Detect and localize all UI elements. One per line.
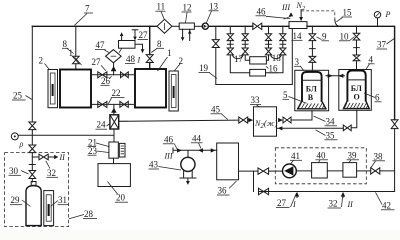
- label 41: [290, 151, 302, 165]
- label 15: [336, 8, 352, 22]
- label 27 top-right: [138, 30, 149, 40]
- blower U13 (circle with arrow): [202, 23, 208, 29]
- dryer U12 (rectangle): [179, 23, 194, 29]
- label 28: [69, 209, 97, 219]
- flow arrow right on III line: [177, 148, 182, 152]
- label 48: [125, 54, 136, 64]
- label 11: [156, 2, 166, 19]
- svg-text:18: 18: [272, 53, 282, 63]
- wire: top header line left segment: [32, 25, 157, 27]
- getter U16 (lower rectangle): [250, 69, 266, 76]
- wire: manifold column 1: [215, 26, 217, 39]
- flow arrow into tank 33: [248, 118, 254, 122]
- label 34: [314, 116, 338, 126]
- svg-text:40: 40: [317, 150, 327, 160]
- label 21: [88, 137, 109, 147]
- label 12: [182, 3, 192, 23]
- N2 inlet arrow into panel 14: [299, 10, 303, 22]
- svg-text:III: III: [164, 152, 173, 161]
- wire: lower getter to col5: [266, 55, 284, 73]
- label 5: [283, 90, 307, 104]
- wire: upper getter to col4: [266, 55, 268, 60]
- label 1 right: [158, 48, 172, 71]
- label 43: [149, 160, 182, 171]
- wire: valve 24 outlet line 45: [119, 120, 239, 121]
- label 37: [377, 39, 395, 50]
- svg-text:44: 44: [192, 133, 202, 143]
- wire: indicator to vessel 20: [113, 158, 115, 163]
- label 46 top: [256, 6, 291, 18]
- valve right of tank 33: [283, 117, 291, 123]
- valve V8 right: [146, 55, 153, 69]
- wire: lower transfer line between tanks: [91, 103, 135, 105]
- svg-text:10: 10: [340, 31, 350, 41]
- connector diamond to analyser 48: [119, 48, 122, 53]
- level glass U23: [119, 143, 125, 157]
- wire: drop to left valve 8: [75, 26, 77, 56]
- svg-text:47: 47: [96, 40, 106, 50]
- valve V32 on branch: [39, 154, 48, 160]
- cryostat vessel BL-O: [344, 71, 370, 109]
- svg-text:1: 1: [167, 48, 172, 58]
- svg-text:17: 17: [234, 54, 244, 64]
- wire: valve 38 to stand-pipe: [380, 170, 395, 172]
- wire: 41 to 40: [296, 170, 311, 172]
- level gauge 2 right: [169, 71, 178, 111]
- wire: port III line to box 36: [173, 148, 217, 153]
- svg-text:41: 41: [291, 151, 300, 161]
- wire: drop to right valve 8 (bold): [149, 26, 151, 54]
- level glass 31: [44, 191, 54, 226]
- valves column 5: [280, 34, 286, 55]
- wire: into dashed unit: [269, 170, 283, 172]
- tank 1 left (bold box): [60, 70, 91, 108]
- compressor U41 (circle with rotor): [283, 164, 297, 178]
- pressure gauge P: [374, 10, 390, 26]
- label 47: [95, 40, 110, 53]
- dashed enclosure 28: [5, 153, 69, 227]
- svg-text:22: 22: [112, 88, 121, 98]
- flow arrow left (44): [198, 148, 203, 152]
- vessel U20 (rectangle): [98, 164, 130, 187]
- label 33: [250, 95, 261, 107]
- label 27 bottom with port I: [276, 193, 297, 209]
- svg-text:30: 30: [9, 166, 19, 176]
- valve above vessel O: [353, 55, 360, 71]
- svg-text:27: 27: [139, 30, 149, 40]
- wire: 39 to valve 38: [357, 170, 371, 172]
- svg-text:27: 27: [277, 198, 287, 208]
- receiver U36 (rectangle): [217, 143, 239, 180]
- wire: upper transfer line between tanks: [91, 74, 135, 76]
- thermostat box 3: [295, 70, 329, 111]
- label 18: [272, 53, 282, 63]
- return stub down into U48: [132, 30, 138, 41]
- wire: header right segment: [307, 26, 395, 120]
- valve V27 upper-left: [98, 72, 107, 78]
- label 29: [10, 195, 31, 206]
- dashed bypass line 15: [301, 11, 340, 26]
- valves column 3: [242, 34, 248, 55]
- svg-text:12: 12: [183, 3, 192, 13]
- wire: riser into cylinder: [31, 153, 33, 182]
- svg-text:37: 37: [377, 40, 387, 50]
- valve on right stand-pipe: [391, 120, 398, 129]
- label 36: [217, 181, 237, 196]
- flow arrow into tank 33 lower: [277, 126, 283, 130]
- wire: header valve to panel 14: [262, 25, 289, 27]
- label 13: [206, 1, 218, 23]
- valve on pump suction line: [258, 168, 269, 174]
- valves column 2: [227, 34, 233, 55]
- svg-text:35: 35: [326, 130, 336, 140]
- wire: return line 35 from vessel O: [282, 110, 357, 128]
- svg-text:20: 20: [116, 193, 126, 203]
- wire: branch to port II: [32, 156, 54, 158]
- label 6: [364, 92, 382, 102]
- svg-text:О: О: [354, 93, 360, 102]
- label 25: [12, 91, 32, 101]
- label 17: [234, 54, 244, 64]
- label 35: [316, 130, 338, 141]
- label 19: [199, 63, 218, 79]
- svg-text:7: 7: [85, 4, 90, 14]
- wire: manifold column 3: [242, 26, 248, 48]
- svg-text:ρ: ρ: [19, 140, 24, 149]
- level gauge 2 left: [48, 70, 58, 108]
- label 14: [292, 31, 303, 41]
- wire: drop to vessel B with valve 9: [310, 26, 316, 56]
- filter U11 (diamond): [157, 19, 172, 33]
- port III top arrow: [281, 3, 293, 19]
- svg-text:24: 24: [97, 120, 107, 130]
- wire: left riser lower: [31, 130, 33, 145]
- valve on line 45: [239, 117, 248, 123]
- valve on left riser: [29, 122, 36, 130]
- svg-text:6: 6: [375, 92, 380, 102]
- svg-text:2: 2: [39, 56, 44, 66]
- svg-text:26: 26: [101, 76, 111, 86]
- label 39: [347, 150, 360, 162]
- label 44: [191, 133, 203, 148]
- nitrogen tank U33: [254, 107, 278, 136]
- label 1 left: [69, 48, 82, 65]
- port II inlet arrow: [341, 192, 345, 198]
- wire: gauge line to centre: [18, 134, 114, 136]
- wire: 40 to 39: [327, 170, 343, 172]
- valve V26 upper-right: [121, 72, 129, 78]
- stub down with up arrow to valve 24: [111, 104, 117, 114]
- label 30: [9, 166, 29, 176]
- wire: header 12 to 13: [194, 25, 202, 27]
- port I inlet arrow: [295, 192, 299, 198]
- svg-text:II: II: [347, 200, 354, 209]
- valves column 4: [265, 34, 271, 55]
- wire: manifold column 4: [266, 26, 272, 48]
- valve V38: [371, 168, 380, 174]
- svg-text:39: 39: [348, 150, 358, 160]
- svg-text:48: 48: [126, 54, 136, 64]
- valve V30: [29, 171, 36, 179]
- cup trap under columns 4-5: [271, 55, 282, 59]
- valve column 1: [212, 40, 219, 48]
- label 16: [266, 63, 278, 73]
- stub with up arrow to sampler 47: [111, 63, 117, 75]
- wire: col2 to lower getter: [230, 55, 249, 73]
- cryostat vessel BL-V: [298, 72, 326, 109]
- svg-text:45: 45: [211, 104, 221, 114]
- valve lower-right: [120, 101, 128, 107]
- svg-text:11: 11: [157, 2, 166, 12]
- svg-text:25: 25: [13, 91, 23, 101]
- cup trap under columns 2-3: [233, 55, 244, 59]
- wire: manifold column 2: [228, 26, 234, 48]
- valve V9: [309, 34, 316, 41]
- label 32 bottom with port II: [328, 193, 354, 209]
- svg-text:P: P: [385, 10, 391, 19]
- wire: drop to vessel O with valve 10: [354, 26, 360, 55]
- transfer arrows between thermostats: [326, 74, 345, 78]
- label 10: [339, 31, 355, 41]
- flow arrow out of tank 33: [278, 118, 283, 122]
- wire: to vessel B bottom: [291, 111, 312, 120]
- flow arrow into box 36: [211, 148, 216, 152]
- svg-text:32: 32: [329, 199, 338, 209]
- svg-text:2: 2: [179, 56, 184, 66]
- svg-text:I: I: [137, 56, 141, 65]
- svg-text:33: 33: [251, 95, 261, 105]
- wire: header 11 to 12: [172, 25, 179, 27]
- label 32 left: [46, 161, 58, 178]
- svg-text:32: 32: [47, 168, 56, 178]
- label 8 right: [151, 39, 164, 53]
- svg-text:3: 3: [295, 57, 300, 67]
- svg-text:14: 14: [293, 31, 303, 41]
- label 27 upper: [92, 57, 106, 71]
- indicator U21 (rectangle): [109, 142, 118, 158]
- svg-text:34: 34: [326, 116, 336, 126]
- label 8 left: [62, 39, 74, 54]
- getter U17/U18 (upper rectangle): [250, 57, 267, 64]
- manometer gauge rho: [11, 133, 23, 149]
- svg-text:13: 13: [209, 1, 219, 11]
- valve V10: [353, 33, 360, 40]
- label 24: [96, 120, 111, 130]
- label 38: [371, 151, 385, 167]
- label 22: [108, 88, 124, 104]
- svg-text:16: 16: [269, 63, 279, 73]
- svg-text:23: 23: [88, 146, 98, 156]
- svg-text:46: 46: [164, 134, 174, 144]
- svg-text:9: 9: [322, 31, 327, 41]
- wire: purge loop 19: [216, 29, 292, 85]
- svg-text:29: 29: [11, 195, 21, 205]
- svg-text:38: 38: [374, 151, 384, 161]
- inlet stub of U12 with up arrow: [188, 29, 192, 40]
- thermostat box 4: [339, 70, 372, 111]
- wire: box 36 outlet: [239, 171, 259, 191]
- label 40: [316, 150, 329, 162]
- label 3: [294, 57, 304, 70]
- wire: below valve 24 to indicator: [113, 129, 115, 142]
- port II arrow left: [54, 153, 65, 162]
- sampler U47 (diamond): [106, 50, 122, 63]
- svg-text:В: В: [308, 93, 314, 102]
- wire: left riser: [31, 26, 33, 122]
- valve on header: [253, 23, 262, 29]
- label 7: [75, 4, 94, 26]
- label 42: [376, 192, 395, 210]
- vent stub up from U48: [120, 32, 124, 40]
- svg-text:31: 31: [58, 195, 67, 205]
- valve on line 35: [343, 125, 351, 131]
- svg-text:36: 36: [218, 186, 228, 196]
- svg-text:4: 4: [369, 54, 374, 64]
- label 9: [317, 31, 330, 41]
- label 46 bottom: [163, 134, 177, 149]
- svg-text:43: 43: [149, 160, 159, 170]
- label 20: [108, 182, 129, 203]
- tank 1 right (bold box): [135, 69, 166, 108]
- wire: header 13 to valve: [208, 25, 252, 27]
- wire: right stand-pipe lower: [259, 129, 395, 192]
- svg-text:15: 15: [343, 8, 353, 18]
- label 2 right: [174, 56, 183, 72]
- svg-text:5: 5: [283, 90, 288, 100]
- solenoid valve U24 (box with X): [110, 115, 119, 129]
- svg-text:42: 42: [382, 200, 391, 210]
- valve above vessel B: [309, 56, 316, 72]
- label 2 left: [39, 56, 50, 70]
- nitrogen panel U14 (rectangle): [289, 22, 307, 29]
- label 26: [101, 76, 112, 86]
- vent tick on riser: [29, 164, 35, 166]
- dashed enclosure (compressor unit): [275, 148, 366, 184]
- port I outlet hook from U48: [135, 44, 144, 64]
- svg-text:46: 46: [257, 6, 267, 16]
- filter U40 (square): [312, 163, 328, 178]
- gas cylinder 29: [26, 182, 41, 226]
- port III bottom label: [164, 152, 173, 161]
- svg-text:28: 28: [84, 209, 94, 219]
- filter U39 (square): [343, 163, 357, 178]
- wire: manifold column 5: [280, 26, 286, 48]
- svg-text:27: 27: [92, 57, 102, 67]
- valve (bold) on left riser: [29, 145, 36, 153]
- label 45: [211, 104, 228, 119]
- wire: vessel B drain stub: [311, 111, 313, 120]
- svg-text:II: II: [59, 153, 66, 162]
- svg-text:1: 1: [69, 48, 74, 58]
- svg-text:8: 8: [63, 39, 68, 49]
- label 31: [51, 195, 70, 206]
- valve lower-left: [98, 101, 107, 107]
- svg-text:8: 8: [157, 39, 162, 49]
- label 4: [366, 54, 375, 69]
- wire: col3 to upper getter: [245, 55, 250, 60]
- valve on bypass line 42: [259, 188, 269, 194]
- analyser U48 (rectangle): [119, 41, 136, 49]
- svg-text:III: III: [281, 3, 290, 12]
- vacuum pump U43: [180, 150, 196, 185]
- valve V8 left: [73, 56, 80, 69]
- vent stub of U12 with down arrow: [181, 29, 185, 41]
- svg-text:19: 19: [199, 63, 209, 73]
- label N2 inlet: [296, 1, 306, 12]
- label 23: [88, 146, 109, 156]
